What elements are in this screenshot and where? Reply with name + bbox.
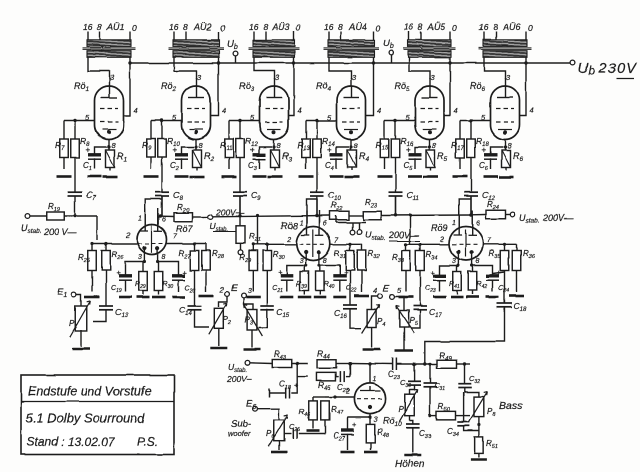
svg-text:3: 3 — [138, 254, 142, 261]
terminal 200V — [208, 208, 245, 234]
capacitor C18 — [493, 271, 527, 314]
svg-text:+: + — [173, 146, 178, 155]
svg-text:+: + — [406, 146, 411, 155]
ground — [199, 295, 214, 298]
ground — [499, 176, 514, 179]
node bus-T5 — [448, 61, 451, 64]
wire — [162, 215, 174, 217]
wire — [520, 57, 527, 115]
node — [348, 362, 351, 365]
resistor R33 — [392, 244, 410, 291]
svg-text:8: 8 — [97, 22, 102, 32]
svg-text:Bass: Bass — [499, 400, 523, 412]
capacitor C17 — [413, 271, 442, 320]
capacitor C23 — [388, 358, 401, 381]
resistor R15 — [376, 121, 389, 170]
capacitor C9 — [233, 158, 261, 216]
ground — [280, 296, 293, 299]
wire — [159, 196, 162, 225]
capacitor C30 — [400, 364, 421, 389]
capacitor C3 — [248, 146, 272, 173]
svg-text:8: 8 — [183, 22, 188, 32]
pot P4 — [362, 305, 386, 334]
wire — [92, 243, 137, 245]
resistor R2 — [193, 150, 215, 171]
wire — [251, 330, 253, 347]
ground — [253, 175, 267, 178]
svg-text:2: 2 — [286, 237, 291, 244]
node bus-T6 — [524, 61, 527, 64]
wire — [250, 362, 273, 365]
pot P2 — [209, 303, 231, 334]
wire — [396, 363, 436, 365]
node grid — [469, 119, 472, 122]
capacitor C10 — [310, 158, 341, 216]
resistor R9 — [142, 121, 155, 170]
svg-text:4: 4 — [530, 106, 534, 115]
wire — [385, 120, 416, 122]
ground — [137, 296, 150, 299]
terminal E1 — [57, 287, 76, 299]
wire — [88, 57, 110, 79]
resistor R10 — [158, 121, 181, 158]
svg-text:6: 6 — [162, 217, 166, 224]
resistor R12 — [236, 121, 259, 158]
wire — [403, 327, 405, 350]
wire — [219, 296, 228, 307]
resistor R13 — [297, 121, 310, 170]
ground — [377, 175, 392, 178]
node — [217, 61, 220, 64]
wire — [299, 433, 325, 435]
wire — [459, 199, 471, 227]
svg-text:4: 4 — [298, 106, 302, 115]
svg-text:Rö7: Rö7 — [176, 224, 194, 234]
node cathode — [349, 145, 352, 148]
label Subwoofer — [228, 419, 251, 438]
resistor R47 — [321, 401, 344, 420]
svg-text:16: 16 — [324, 22, 334, 32]
ground — [57, 175, 72, 178]
wire — [325, 396, 355, 398]
node — [193, 242, 196, 245]
wire — [471, 214, 486, 216]
resistor R35 — [489, 244, 509, 270]
svg-text:2: 2 — [219, 287, 224, 294]
label Ro8 — [281, 221, 298, 231]
wire — [126, 250, 145, 277]
wire — [278, 441, 280, 450]
wire C11 down — [395, 196, 397, 216]
node — [296, 362, 299, 365]
transformer AU3 — [249, 22, 302, 57]
transformer AU1 — [83, 22, 138, 57]
tube Ro5 — [395, 73, 458, 150]
resistor R39 — [296, 266, 308, 295]
capacitor C16 — [334, 271, 357, 321]
svg-text:+: + — [294, 381, 299, 390]
wire — [457, 363, 471, 365]
transformer AU6 — [479, 22, 534, 57]
svg-text:8: 8 — [323, 258, 327, 265]
tube Ro3 — [239, 73, 302, 150]
tube Ro1 — [74, 73, 138, 150]
wire — [409, 57, 430, 79]
capacitor C8 — [155, 158, 183, 216]
capacitor C5 — [404, 146, 428, 173]
node cathode — [107, 145, 110, 148]
node — [73, 214, 76, 217]
resistor R22 — [330, 201, 349, 220]
tube Ro10 — [345, 364, 402, 428]
resistor R1 — [106, 150, 128, 171]
node — [252, 243, 269, 246]
svg-text:0: 0 — [221, 23, 226, 33]
wire — [273, 140, 275, 151]
capacitor C19 — [111, 268, 132, 294]
resistor R7 — [55, 121, 68, 170]
wire — [369, 414, 371, 424]
terminal E5 — [390, 286, 402, 299]
transformer AU5 — [404, 22, 458, 57]
resistor R29 — [135, 262, 147, 295]
resistor R34 — [416, 244, 438, 270]
terminal — [238, 250, 243, 255]
pot P8 — [469, 392, 497, 423]
node — [457, 264, 473, 267]
node bus-T3 — [292, 61, 295, 64]
svg-text:AÜ4: AÜ4 — [348, 22, 367, 32]
capacitor C12 — [464, 158, 495, 216]
resistor R31 — [334, 244, 354, 270]
resistor R3 — [271, 150, 293, 171]
capacitor C15 — [260, 271, 289, 320]
svg-text:0: 0 — [296, 23, 301, 33]
wire — [80, 330, 82, 347]
wire — [440, 254, 459, 277]
wire — [337, 363, 393, 366]
node — [503, 243, 506, 246]
resistor R26 — [102, 244, 125, 271]
title box — [21, 375, 174, 455]
wire — [329, 57, 352, 79]
resistor R17 — [451, 121, 464, 170]
node grid — [394, 119, 397, 122]
wire — [64, 120, 95, 122]
capacitor C34 — [447, 392, 479, 438]
node — [348, 243, 351, 246]
capacitor C31 — [424, 364, 446, 416]
resistor R42 — [468, 266, 487, 295]
ground — [345, 176, 360, 179]
label E — [231, 283, 238, 294]
wire C13->P1 — [93, 310, 106, 322]
resistor R8 — [71, 121, 90, 158]
svg-text:8: 8 — [263, 22, 268, 32]
resistor R44 — [317, 348, 337, 368]
resistor R32 — [357, 244, 379, 292]
resistor R30 — [263, 244, 286, 270]
ground — [484, 175, 498, 178]
ground — [433, 296, 446, 299]
resistor R50 — [430, 402, 470, 420]
svg-text:Rö8: Rö8 — [281, 221, 298, 231]
svg-text:16: 16 — [169, 22, 179, 32]
ground — [471, 458, 487, 461]
wire — [151, 120, 182, 122]
ground — [453, 175, 468, 178]
svg-text:woofer: woofer — [228, 429, 251, 438]
svg-text:Endstufe und Vorstufe: Endstufe und Vorstufe — [28, 385, 151, 399]
resistor R30 — [154, 262, 173, 295]
svg-text:2: 2 — [125, 233, 130, 240]
terminal Ub — [227, 39, 238, 63]
svg-text:6: 6 — [323, 221, 327, 228]
svg-text:4: 4 — [454, 106, 458, 115]
ground — [404, 454, 421, 457]
node bus-T4 — [372, 61, 375, 64]
wire feed Ro7 — [96, 216, 98, 240]
wire — [167, 243, 206, 245]
resistor R20 — [174, 203, 192, 221]
capacitor C24 — [486, 268, 509, 294]
svg-text:3: 3 — [248, 288, 252, 295]
terminal E4 — [373, 286, 382, 298]
svg-text:+: + — [352, 420, 357, 429]
node cathode — [272, 145, 275, 148]
ground — [486, 296, 499, 299]
terminal — [350, 230, 362, 235]
resistor R29 — [239, 244, 257, 291]
capacitor C4 — [325, 146, 349, 173]
node cathode — [194, 145, 197, 148]
svg-text:+: + — [86, 146, 91, 155]
wire — [319, 254, 340, 277]
svg-text:AÜ3: AÜ3 — [271, 22, 290, 32]
capacitor C18b — [269, 380, 299, 399]
svg-text:4: 4 — [134, 106, 138, 115]
node — [368, 416, 371, 419]
wire — [478, 417, 480, 437]
wire — [76, 295, 81, 307]
svg-text:+: + — [278, 268, 283, 277]
node cathode — [503, 145, 506, 148]
wire C15->P3 — [259, 309, 268, 328]
wire — [410, 385, 415, 395]
node — [90, 242, 107, 245]
wire — [211, 57, 219, 115]
node — [469, 213, 473, 217]
svg-text:+: + — [482, 146, 487, 155]
ground — [509, 295, 524, 298]
pot P7 — [398, 390, 418, 422]
wire — [145, 199, 162, 225]
svg-text:200V—: 200V— — [542, 213, 574, 223]
wire — [366, 57, 374, 115]
terminal E3 — [241, 288, 252, 298]
node — [463, 362, 466, 365]
resistor R51 — [475, 437, 498, 458]
ground — [299, 175, 314, 178]
ground — [119, 296, 132, 299]
ground — [175, 175, 189, 178]
wire — [244, 298, 254, 309]
svg-text:200V–: 200V– — [226, 374, 252, 384]
label Ro9 — [431, 223, 448, 233]
wire — [124, 57, 131, 115]
wire — [406, 243, 449, 245]
svg-text:3: 3 — [299, 258, 303, 265]
svg-text:8: 8 — [493, 22, 498, 32]
wire — [108, 140, 110, 151]
terminal Ustab 200V bottom — [226, 360, 252, 384]
svg-text:+: + — [251, 146, 256, 155]
wire — [371, 327, 373, 348]
capacitor C21 — [272, 268, 293, 294]
svg-text:1: 1 — [138, 216, 142, 223]
resistor R24 — [486, 200, 505, 219]
wire feed Ro9 — [408, 214, 411, 244]
wire — [381, 214, 471, 217]
wire — [444, 57, 450, 115]
wire — [174, 57, 197, 79]
svg-text:0: 0 — [132, 23, 137, 33]
ground — [172, 296, 185, 299]
tube Ro6 — [470, 73, 534, 150]
resistor R45 — [316, 372, 336, 392]
svg-text:+: + — [183, 268, 188, 277]
wire — [372, 296, 378, 310]
tube Ro8 — [286, 211, 339, 266]
svg-text:2: 2 — [345, 389, 350, 396]
svg-text:0: 0 — [452, 23, 457, 33]
svg-text:AÜ5: AÜ5 — [427, 22, 447, 32]
ground — [190, 176, 205, 179]
wire stub terminals — [336, 216, 366, 230]
ground — [363, 348, 381, 351]
wire R45 branch — [297, 364, 308, 377]
wire — [429, 140, 431, 151]
wire — [257, 409, 279, 420]
capacitor C26 — [289, 422, 300, 439]
node bus-T2 — [217, 61, 220, 64]
wire — [287, 254, 306, 277]
resistor R6 — [502, 150, 524, 171]
wire — [349, 215, 364, 217]
ground — [88, 175, 102, 178]
resistor R36 — [512, 244, 535, 292]
tube Ro4 — [316, 73, 381, 150]
wire — [65, 215, 98, 217]
svg-text:8: 8 — [476, 258, 480, 265]
wire C18b branch — [291, 377, 297, 393]
capacitor C6 — [479, 146, 503, 173]
svg-text:P.S.: P.S. — [137, 435, 158, 449]
terminal Ustab 200V right — [510, 212, 574, 225]
svg-text:AÜ6: AÜ6 — [502, 22, 521, 32]
node grid — [160, 119, 163, 122]
svg-text:8: 8 — [162, 254, 166, 261]
wire — [460, 120, 491, 122]
ground — [341, 451, 355, 454]
wire C16->P4 — [350, 309, 361, 328]
wire — [330, 243, 361, 245]
capacitor C13 — [99, 271, 128, 320]
resistor R48 — [366, 424, 390, 450]
ground — [354, 295, 369, 298]
wire — [254, 57, 275, 79]
resistor R49 — [437, 350, 457, 368]
ground — [307, 429, 320, 432]
wire — [158, 250, 179, 277]
svg-text:4: 4 — [373, 286, 377, 295]
ground — [423, 176, 438, 179]
terminal Ub 230V — [570, 60, 637, 78]
svg-text:230V: 230V — [598, 61, 637, 77]
svg-text:1: 1 — [373, 376, 377, 383]
node — [404, 243, 421, 246]
wire — [253, 243, 296, 245]
ground — [399, 296, 414, 299]
node — [477, 423, 480, 426]
svg-text:E: E — [231, 283, 238, 294]
wire — [317, 196, 320, 227]
resistor R21 — [236, 226, 261, 250]
svg-text:200 V—: 200 V— — [43, 227, 78, 237]
resistor R43 — [272, 350, 292, 368]
label Ustab 200V — [365, 230, 420, 242]
wire — [484, 57, 506, 79]
node cathode — [428, 145, 431, 148]
node grid — [73, 119, 76, 122]
svg-text:5.1 Dolby Sourround: 5.1 Dolby Sourround — [26, 411, 146, 426]
wire — [284, 433, 292, 435]
wire — [483, 243, 517, 245]
node — [368, 362, 371, 365]
wire — [30, 215, 47, 217]
svg-text:AÜ1: AÜ1 — [106, 22, 125, 32]
svg-text:4: 4 — [222, 106, 226, 115]
pot P5 — [396, 306, 419, 334]
ground — [333, 296, 346, 299]
ground — [298, 296, 311, 299]
ground — [210, 347, 227, 350]
ground — [395, 349, 413, 352]
ground — [466, 296, 479, 299]
wire — [306, 120, 337, 122]
wire — [218, 328, 220, 346]
wire — [195, 140, 197, 151]
resistor R40 — [316, 266, 335, 295]
node grid — [238, 119, 241, 122]
resistor R25 — [78, 244, 96, 292]
ground — [451, 296, 464, 299]
terminal E6 — [246, 399, 257, 411]
ground — [144, 175, 159, 178]
resistor R14 — [313, 121, 336, 158]
capacitor C27 — [333, 418, 370, 451]
terminal Ub — [383, 38, 394, 63]
capacitor C32 — [458, 364, 480, 397]
resistor R46 — [299, 397, 325, 429]
label Ro7 — [176, 224, 194, 234]
resistor R23 — [364, 198, 382, 220]
resistor R4 — [348, 150, 370, 171]
svg-text:8: 8 — [338, 22, 343, 32]
svg-text:Rö9: Rö9 — [431, 223, 448, 233]
svg-text:8: 8 — [418, 22, 423, 32]
ground — [268, 176, 283, 179]
